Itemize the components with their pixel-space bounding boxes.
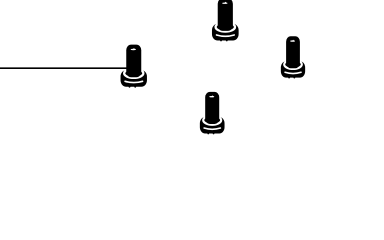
screw 2 (top)	[212, 0, 239, 41]
screw 4 (bottom)	[200, 92, 225, 134]
screw 1 (left)	[121, 45, 147, 88]
leader line	[0, 67, 127, 69]
screw 3 (right)	[281, 36, 305, 78]
